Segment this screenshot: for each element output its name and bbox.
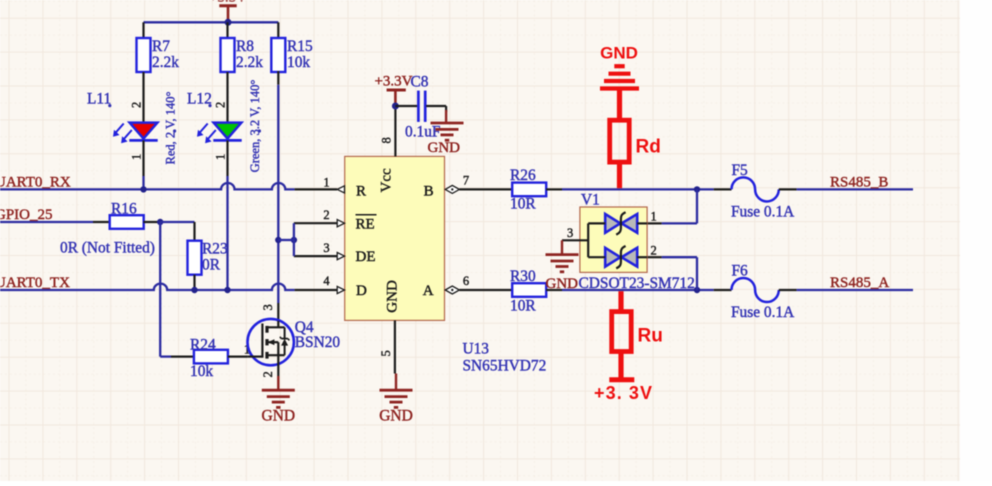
svg-text:D: D (356, 283, 367, 299)
svg-text:DE: DE (356, 249, 376, 265)
svg-text:10R: 10R (510, 298, 536, 315)
svg-text:R26: R26 (510, 167, 536, 184)
svg-text:C8: C8 (411, 73, 429, 90)
svg-text:1: 1 (323, 175, 329, 189)
svg-text:Vcc: Vcc (379, 168, 395, 192)
svg-text:1: 1 (213, 154, 227, 160)
svg-text:CDSOT23-SM712: CDSOT23-SM712 (579, 275, 695, 292)
svg-text:Green, 3.2 V, 140°: Green, 3.2 V, 140° (248, 80, 262, 173)
svg-text:10k: 10k (287, 54, 310, 71)
svg-text:B: B (424, 183, 434, 199)
svg-text:R7: R7 (152, 38, 170, 55)
svg-text:U13: U13 (463, 340, 490, 357)
svg-text:2: 2 (129, 102, 143, 108)
svg-text:Rd: Rd (636, 137, 661, 158)
svg-text:L11: L11 (87, 91, 111, 108)
svg-text:SN65HVD72: SN65HVD72 (463, 358, 547, 375)
svg-text:BSN20: BSN20 (295, 334, 341, 351)
svg-text:4: 4 (323, 274, 330, 288)
svg-text:1: 1 (129, 154, 143, 160)
svg-text:GND: GND (546, 276, 579, 292)
svg-text:0R (Not Fitted): 0R (Not Fitted) (60, 240, 155, 257)
svg-text:3: 3 (261, 304, 275, 310)
svg-text:Ru: Ru (638, 326, 663, 347)
svg-text:GND: GND (600, 44, 638, 63)
svg-text:+3.3V: +3.3V (374, 73, 412, 89)
svg-text:R23: R23 (202, 241, 228, 258)
svg-text:Fuse 0.1A: Fuse 0.1A (731, 304, 794, 321)
svg-text:2.2k: 2.2k (236, 54, 263, 71)
svg-text:1: 1 (651, 209, 657, 223)
svg-text:R: R (356, 183, 366, 199)
svg-text:GND: GND (379, 408, 413, 425)
svg-text:GPIO_25: GPIO_25 (0, 207, 53, 223)
svg-text:GND: GND (385, 280, 401, 313)
svg-text:10k: 10k (190, 363, 213, 380)
svg-text:2: 2 (213, 102, 227, 108)
svg-text:3: 3 (567, 226, 573, 240)
svg-text:R30: R30 (510, 268, 536, 285)
svg-text:RS485_A: RS485_A (830, 275, 889, 291)
svg-text:0.1uF: 0.1uF (405, 124, 441, 141)
svg-text:5: 5 (379, 350, 393, 356)
svg-text:Fuse 0.1A: Fuse 0.1A (731, 204, 794, 221)
svg-text:UART0_RX: UART0_RX (0, 174, 71, 190)
svg-text:R24: R24 (190, 336, 216, 353)
svg-text:R15: R15 (287, 38, 313, 55)
svg-text:Red, 2 V, 140°: Red, 2 V, 140° (164, 92, 178, 165)
svg-text:R16: R16 (111, 200, 137, 217)
svg-text:RS485_B: RS485_B (830, 174, 888, 190)
svg-text:A: A (423, 283, 434, 299)
svg-text:L12: L12 (187, 91, 212, 108)
svg-text:GND: GND (428, 140, 461, 156)
svg-text:3: 3 (323, 241, 329, 255)
svg-text:2: 2 (261, 371, 275, 377)
svg-text:+3. 3V: +3. 3V (594, 383, 653, 403)
svg-text:8: 8 (379, 137, 393, 143)
svg-text:2.2k: 2.2k (152, 54, 179, 71)
svg-text:10R: 10R (510, 196, 536, 213)
svg-text:2: 2 (323, 208, 329, 222)
svg-text:F5: F5 (732, 162, 749, 179)
svg-text:7: 7 (463, 173, 469, 187)
svg-text:V1: V1 (581, 191, 600, 208)
svg-text:UART0_TX: UART0_TX (0, 275, 70, 291)
svg-text:2: 2 (651, 243, 657, 257)
svg-text:R8: R8 (236, 38, 254, 55)
svg-text:GND: GND (262, 408, 296, 425)
svg-text:6: 6 (463, 274, 469, 288)
svg-text:RE: RE (356, 216, 375, 232)
svg-text:0R: 0R (202, 257, 221, 274)
svg-text:F6: F6 (732, 263, 749, 280)
